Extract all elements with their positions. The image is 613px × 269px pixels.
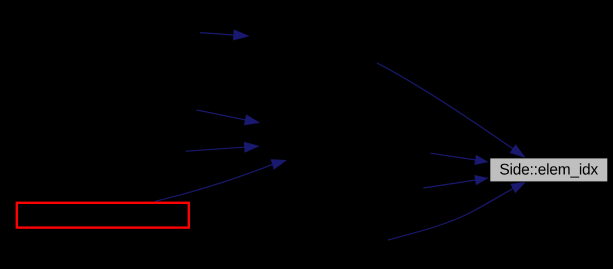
edge F4: bottom middle node to Side::elem_idx (curved, enters bottom): [388, 182, 526, 240]
current node (red truncated box, label invisible on black): [17, 203, 189, 228]
edge E4: from red truncated node to middle node: [155, 159, 287, 201]
edge F3: middle node to Side::elem_idx (lower left entry): [423, 175, 488, 188]
edge F1: top middle node to Side::elem_idx (long diagonal): [377, 63, 526, 158]
node Side::elem_idx (grey filled): [490, 158, 608, 182]
edge E2: caller to middle node (second): [197, 110, 261, 125]
edge E3: caller to middle node (third): [186, 142, 260, 153]
edge E1: caller to middle node (top): [200, 29, 250, 40]
edge F2: middle node to Side::elem_idx (upper left entry): [431, 153, 489, 165]
